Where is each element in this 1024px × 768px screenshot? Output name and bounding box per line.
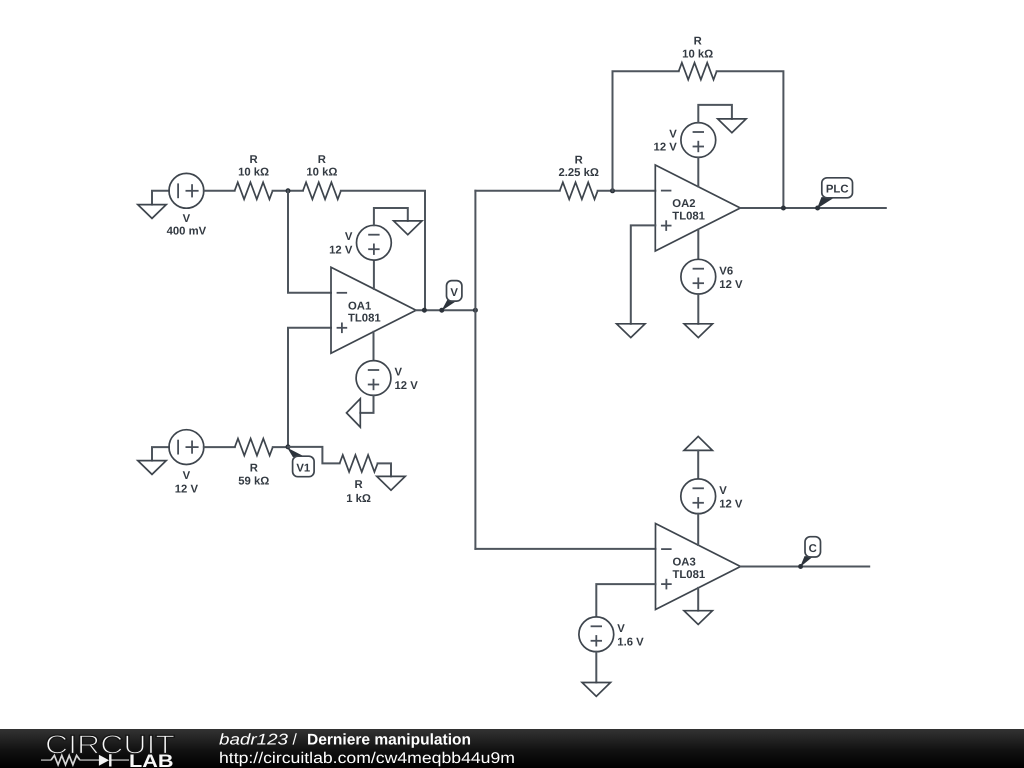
ground [718,119,746,133]
wire arrow to V source [697,450,699,479]
svg-text:http://circuitlab.com/cw4meqbb: http://circuitlab.com/cw4meqbb44u9m [219,750,515,767]
voltage source V 12 V above OA1 [329,225,391,260]
svg-text:TL081: TL081 [348,313,381,325]
wire R2 to feedback corner down to OA1 output [341,191,425,310]
svg-text:C: C [809,543,817,555]
wire OA1 bottom to V- supply [373,332,375,361]
wire OA2 output [740,207,886,209]
svg-text:V: V [183,213,191,225]
wire OA1 non-inverting input down to node V1 [288,328,331,447]
svg-text:59 kΩ: 59 kΩ [238,476,269,488]
flag V tail [441,300,456,312]
voltage source V 12 V above OA3 [681,479,743,514]
ground [394,221,422,235]
node junction dot [286,188,291,193]
svg-text:12 V: 12 V [395,380,419,392]
logo diode [99,755,109,766]
flag PLC tail [817,197,833,209]
wire source bottom to OA3 top [697,514,699,545]
svg-text:V: V [617,623,625,635]
svg-text:R: R [575,155,583,167]
wire V 1.6 V bottom to ground [595,652,597,683]
svg-text:TL081: TL081 [673,569,706,581]
junction dot flag C [798,564,803,569]
junction dot flag PLC [815,206,820,211]
wire OA1 output [416,309,475,311]
svg-text:V6: V6 [719,265,733,277]
wire node up to R 2.25k [475,190,559,192]
resistor R 59 kOhm [235,439,273,488]
logo lead wire [41,759,51,761]
flag V1 tail [287,448,304,457]
ground [684,611,712,625]
wire R 59k to node V1 [273,446,288,448]
junction dot flag V [439,308,444,313]
voltage source V 400 mV [167,173,207,237]
wire OA2 non-inverting input to ground [631,225,656,323]
voltage source V6 12 V below OA2 [681,259,743,294]
svg-text:V: V [183,470,191,482]
resistor R 1 kOhm [340,455,378,505]
ground [582,683,610,697]
svg-text:12 V: 12 V [329,244,353,256]
svg-text:R: R [250,154,258,166]
voltage source V 12 V bottom left [169,430,204,496]
flag C tail [800,556,812,567]
svg-text:R: R [250,463,258,475]
junction dot feedback right [781,206,786,211]
svg-text:V: V [669,128,677,140]
flag C [805,537,821,557]
ground [138,461,166,475]
svg-text:V1: V1 [296,462,310,474]
svg-text:10 kΩ: 10 kΩ [238,166,269,178]
svg-text:Derniere manipulation: Derniere manipulation [307,731,471,748]
wire R 1k to ground [378,463,391,476]
logo wire after diode [112,759,130,761]
op-amp OA2 TL081 [655,165,740,251]
resistor R 10 kOhm feedback OA2 [679,35,717,79]
voltage source V 1.6 V [579,617,644,652]
wire OA2 bottom to V6 [697,230,699,260]
svg-text:V: V [450,287,458,299]
wire main vertical node V [474,191,476,549]
wire source bottom to left ground [360,395,373,413]
wire source top to ground [374,208,408,225]
svg-text:OA3: OA3 [673,557,696,569]
svg-text:/: / [293,731,298,748]
wire R1 to R2 [273,190,303,192]
svg-text:R: R [318,154,326,166]
ground [138,205,166,219]
wire node to OA1 inverting input [288,191,331,293]
flag V1 [293,456,315,477]
logo wire to diode [80,759,99,761]
ground [377,476,405,490]
svg-text:10 kΩ: 10 kΩ [682,49,713,61]
svg-text:OA1: OA1 [348,300,371,312]
svg-text:12 V: 12 V [175,484,199,496]
op-amp OA3 TL081 [656,524,741,610]
wire OA3 output [741,566,870,568]
wire V6 bottom to ground [697,294,699,324]
wire source to R1 [204,190,235,192]
resistor R 10 kOhm (R1) [235,154,273,199]
svg-text:12 V: 12 V [719,498,743,510]
voltage source V 12 V above OA2 [654,123,716,158]
resistor R 10 kOhm (R2) [303,154,341,199]
svg-text:400 mV: 400 mV [167,225,207,237]
wire node V1 to R 1k [288,447,340,464]
svg-text:V: V [395,367,403,379]
op-amp OA1 TL081 [331,267,416,353]
svg-text:PLC: PLC [826,184,849,196]
wire V source left to ground G1 [152,191,169,205]
feedback wire right side down to output [717,71,784,208]
svg-text:12 V: 12 V [719,279,743,291]
flag PLC [822,178,853,198]
wire OA3 non-inverting input to V 1.6 V [596,584,655,617]
svg-text:R: R [694,35,702,47]
svg-text:LAB: LAB [129,751,174,768]
svg-text:badr123: badr123 [219,731,288,748]
svg-text:TL081: TL081 [672,210,705,222]
svg-text:2.25 kΩ: 2.25 kΩ [558,167,598,179]
voltage source V 12 V below OA1 [356,361,418,396]
ground (rotated left) [347,399,361,427]
junction dot feedback OA2 [610,188,615,193]
svg-text:12 V: 12 V [654,142,678,154]
svg-text:10 kΩ: 10 kΩ [306,166,337,178]
wire source top to ground [698,105,732,123]
svg-text:V: V [345,231,353,243]
svg-text:V: V [719,485,727,497]
wire R 2.25k to OA2 inverting input [598,190,656,192]
resistor R 2.25 kOhm [558,155,598,200]
ground [617,324,645,338]
power arrow above OA3 [684,436,712,450]
wire V+ supply to OA1 top [373,226,375,289]
wire V 12 V source left to ground (bottom left) [152,447,169,461]
junction dot feedback [422,308,427,313]
junction dot main node [473,308,478,313]
wire OA3 bottom to ground [697,588,699,611]
svg-text:1 kΩ: 1 kΩ [346,493,371,505]
svg-text:OA2: OA2 [672,198,695,210]
junction dot node V1 [286,444,291,449]
feedback wire up and over R 10k [613,71,679,191]
ground [684,324,712,338]
wire source bottom to OA2 top [697,157,699,186]
svg-text:1.6 V: 1.6 V [617,636,644,648]
wire node down to OA3 inverting input [475,548,655,550]
logo resistor zigzag [51,755,80,764]
wire source to R 59k [204,446,235,448]
flag V [447,281,462,302]
svg-text:R: R [355,479,363,491]
